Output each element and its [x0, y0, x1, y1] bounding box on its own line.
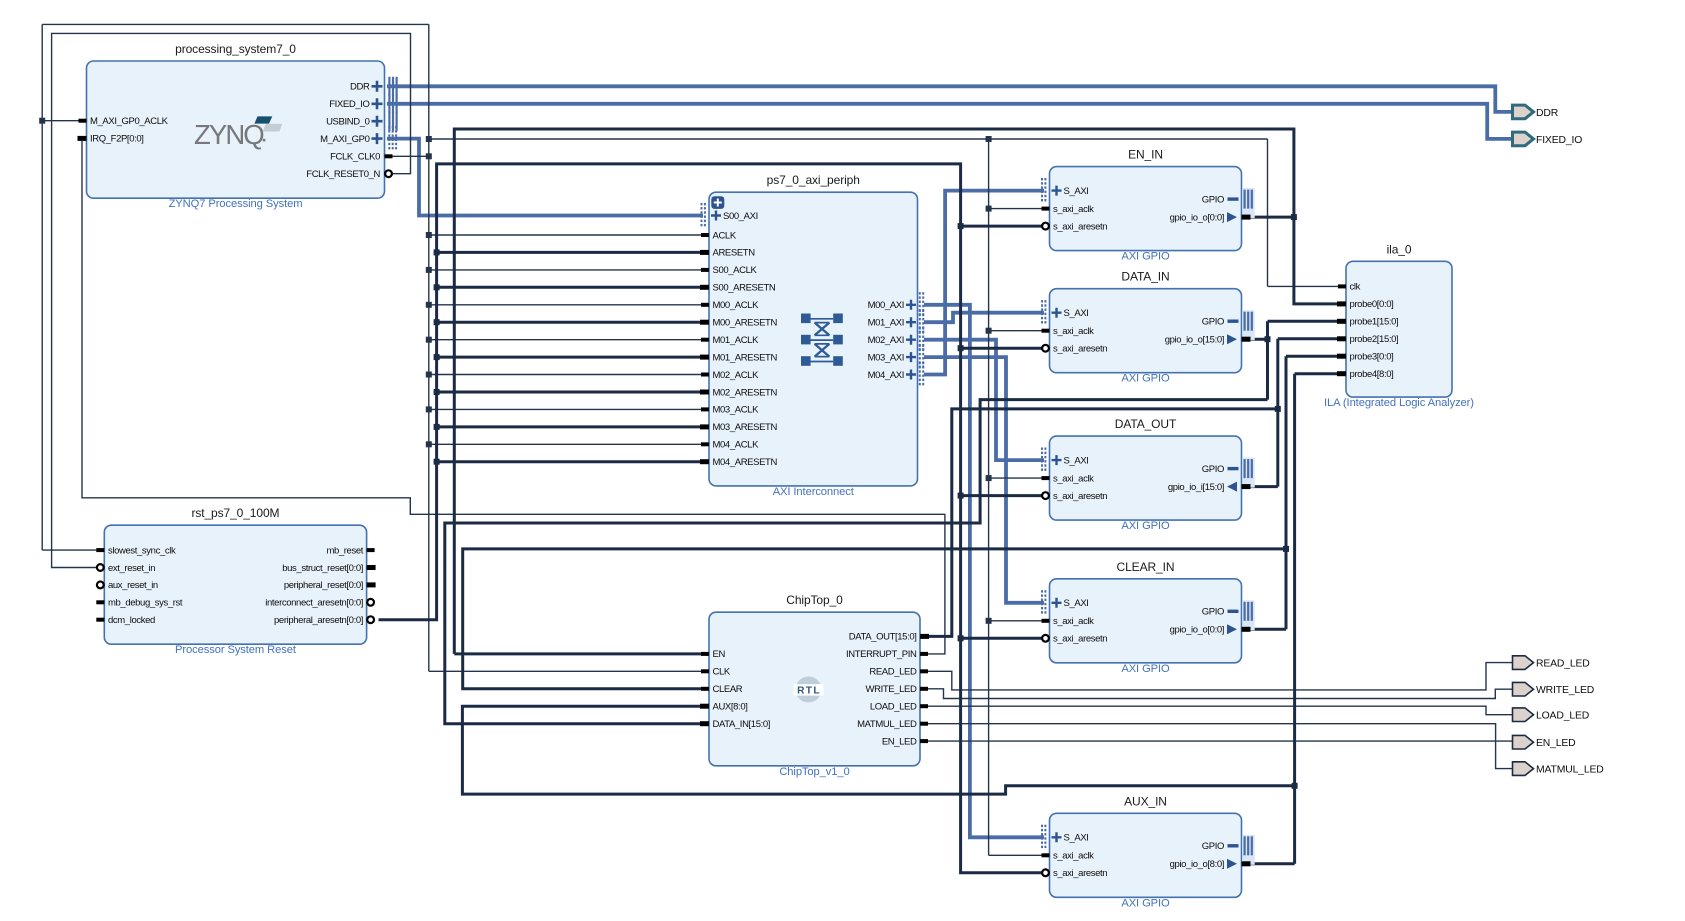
svg-text:ZYNQ7 Processing System: ZYNQ7 Processing System [169, 198, 303, 210]
svg-text:M_AXI_GP0_ACLK: M_AXI_GP0_ACLK [90, 116, 169, 127]
svg-text:M01_ARESETN: M01_ARESETN [713, 352, 778, 363]
svg-text:aux_reset_in: aux_reset_in [108, 580, 158, 591]
svg-text:DATA_IN: DATA_IN [1121, 270, 1169, 284]
svg-text:gpio_io_o[15:0]: gpio_io_o[15:0] [1165, 335, 1224, 346]
svg-text:S_AXI: S_AXI [1064, 833, 1089, 844]
svg-text:GPIO: GPIO [1202, 194, 1224, 205]
svg-text:M04_ARESETN: M04_ARESETN [713, 457, 778, 468]
svg-text:AXI GPIO: AXI GPIO [1121, 663, 1170, 675]
svg-text:ps7_0_axi_periph: ps7_0_axi_periph [767, 173, 860, 187]
svg-text:S_AXI: S_AXI [1064, 308, 1089, 319]
svg-text:s_axi_aclk: s_axi_aclk [1053, 616, 1094, 627]
svg-text:ACLK: ACLK [713, 230, 737, 241]
svg-text:M03_AXI: M03_AXI [868, 352, 904, 363]
svg-text:EN_LED: EN_LED [882, 736, 917, 747]
svg-text:s_axi_aclk: s_axi_aclk [1053, 326, 1094, 337]
svg-text:bus_struct_reset[0:0]: bus_struct_reset[0:0] [282, 563, 363, 574]
svg-text:probe1[15:0]: probe1[15:0] [1350, 317, 1399, 328]
svg-text:slowest_sync_clk: slowest_sync_clk [108, 545, 176, 556]
svg-text:gpio_io_i[15:0]: gpio_io_i[15:0] [1168, 482, 1224, 493]
svg-text:mb_reset: mb_reset [326, 545, 363, 556]
svg-text:CLK: CLK [713, 667, 731, 678]
svg-text:gpio_io_o[0:0]: gpio_io_o[0:0] [1170, 625, 1224, 636]
svg-text:M00_AXI: M00_AXI [868, 300, 904, 311]
svg-text:DATA_OUT: DATA_OUT [1115, 417, 1177, 431]
svg-text:M00_ARESETN: M00_ARESETN [713, 318, 778, 329]
svg-text:mb_debug_sys_rst: mb_debug_sys_rst [108, 598, 183, 609]
svg-text:MATMUL_LED: MATMUL_LED [857, 719, 917, 730]
svg-text:s_axi_aresetn: s_axi_aresetn [1053, 868, 1107, 879]
svg-text:peripheral_aresetn[0:0]: peripheral_aresetn[0:0] [274, 615, 363, 626]
svg-text:MATMUL_LED: MATMUL_LED [1536, 765, 1604, 776]
svg-text:S_AXI: S_AXI [1064, 186, 1089, 197]
svg-text:clk: clk [1350, 282, 1361, 293]
svg-text:s_axi_aclk: s_axi_aclk [1053, 473, 1094, 484]
svg-text:READ_LED: READ_LED [1536, 659, 1590, 670]
svg-text:s_axi_aresetn: s_axi_aresetn [1053, 344, 1107, 355]
svg-text:M01_ACLK: M01_ACLK [713, 335, 760, 346]
svg-text:probe0[0:0]: probe0[0:0] [1350, 299, 1394, 310]
svg-text:M04_AXI: M04_AXI [868, 370, 904, 381]
svg-text:M02_AXI: M02_AXI [868, 335, 904, 346]
svg-text:S00_AXI: S00_AXI [723, 211, 758, 222]
svg-text:ZYNQ: ZYNQ [194, 119, 264, 150]
svg-text:ila_0: ila_0 [1387, 242, 1412, 256]
svg-text:processing_system7_0: processing_system7_0 [175, 42, 296, 56]
svg-text:GPIO: GPIO [1202, 841, 1224, 852]
svg-text:EN_IN: EN_IN [1128, 148, 1163, 162]
svg-text:probe3[0:0]: probe3[0:0] [1350, 352, 1394, 363]
svg-text:AXI GPIO: AXI GPIO [1121, 373, 1170, 385]
svg-text:GPIO: GPIO [1202, 464, 1224, 475]
svg-text:AUX_IN: AUX_IN [1124, 794, 1167, 808]
svg-text:M01_AXI: M01_AXI [868, 318, 904, 329]
svg-text:USBIND_0: USBIND_0 [326, 117, 370, 128]
svg-text:S00_ACLK: S00_ACLK [713, 265, 758, 276]
svg-text:s_axi_aclk: s_axi_aclk [1053, 851, 1094, 862]
svg-text:peripheral_reset[0:0]: peripheral_reset[0:0] [284, 580, 363, 591]
svg-text:interconnect_aresetn[0:0]: interconnect_aresetn[0:0] [265, 598, 363, 609]
svg-text:ILA (Integrated Logic Analyzer: ILA (Integrated Logic Analyzer) [1324, 397, 1474, 409]
svg-text:INTERRUPT_PIN: INTERRUPT_PIN [846, 649, 917, 660]
svg-text:FIXED_IO: FIXED_IO [1536, 135, 1582, 146]
svg-text:GPIO: GPIO [1202, 317, 1224, 328]
svg-text:LOAD_LED: LOAD_LED [870, 702, 917, 713]
svg-text:DDR: DDR [1536, 108, 1559, 119]
svg-text:S_AXI: S_AXI [1064, 455, 1089, 466]
svg-text:dcm_locked: dcm_locked [108, 615, 155, 626]
svg-text:ChipTop_v1_0: ChipTop_v1_0 [779, 766, 849, 778]
svg-text:WRITE_LED: WRITE_LED [1536, 685, 1594, 696]
svg-text:AXI GPIO: AXI GPIO [1121, 520, 1170, 532]
svg-text:DATA_OUT[15:0]: DATA_OUT[15:0] [849, 632, 917, 643]
svg-text:DATA_IN[15:0]: DATA_IN[15:0] [713, 719, 771, 730]
svg-text:probe2[15:0]: probe2[15:0] [1350, 334, 1399, 345]
svg-text:probe4[8:0]: probe4[8:0] [1350, 369, 1394, 380]
svg-text:s_axi_aresetn: s_axi_aresetn [1053, 221, 1107, 232]
svg-text:ARESETN: ARESETN [713, 248, 756, 259]
svg-text:READ_LED: READ_LED [869, 667, 917, 678]
svg-text:M03_ACLK: M03_ACLK [713, 405, 760, 416]
svg-text:s_axi_aclk: s_axi_aclk [1053, 204, 1094, 215]
svg-text:M03_ARESETN: M03_ARESETN [713, 422, 778, 433]
svg-text:GPIO: GPIO [1202, 607, 1224, 618]
svg-text:M02_ACLK: M02_ACLK [713, 370, 760, 381]
svg-text:gpio_io_o[0:0]: gpio_io_o[0:0] [1170, 212, 1224, 223]
svg-text:S00_ARESETN: S00_ARESETN [713, 283, 776, 294]
svg-text:ext_reset_in: ext_reset_in [108, 563, 155, 574]
svg-text:rst_ps7_0_100M: rst_ps7_0_100M [191, 506, 279, 520]
svg-text:M_AXI_GP0: M_AXI_GP0 [320, 134, 369, 145]
svg-text:EN: EN [713, 649, 726, 660]
svg-text:FCLK_CLK0: FCLK_CLK0 [330, 152, 380, 163]
svg-text:LOAD_LED: LOAD_LED [1536, 711, 1589, 722]
svg-text:M00_ACLK: M00_ACLK [713, 300, 760, 311]
svg-text:AXI GPIO: AXI GPIO [1121, 251, 1170, 263]
svg-text:M04_ACLK: M04_ACLK [713, 440, 760, 451]
svg-text:FIXED_IO: FIXED_IO [329, 99, 369, 110]
svg-text:AXI GPIO: AXI GPIO [1121, 897, 1170, 909]
svg-text:FCLK_RESET0_N: FCLK_RESET0_N [306, 169, 380, 180]
svg-text:s_axi_aresetn: s_axi_aresetn [1053, 634, 1107, 645]
svg-text:AXI Interconnect: AXI Interconnect [773, 486, 855, 498]
svg-text:RTL: RTL [797, 685, 821, 696]
svg-text:CLEAR: CLEAR [713, 684, 743, 695]
svg-text:WRITE_LED: WRITE_LED [866, 684, 917, 695]
svg-text:ChipTop_0: ChipTop_0 [786, 593, 843, 607]
svg-text:CLEAR_IN: CLEAR_IN [1117, 560, 1175, 574]
svg-text:AUX[8:0]: AUX[8:0] [713, 702, 748, 713]
svg-text:Processor System Reset: Processor System Reset [175, 644, 297, 656]
svg-text:M02_ARESETN: M02_ARESETN [713, 387, 778, 398]
svg-text:DDR: DDR [350, 82, 370, 93]
svg-text:EN_LED: EN_LED [1536, 738, 1576, 749]
svg-text:s_axi_aresetn: s_axi_aresetn [1053, 491, 1107, 502]
svg-text:IRQ_F2P[0:0]: IRQ_F2P[0:0] [90, 134, 144, 145]
svg-text:gpio_io_o[8:0]: gpio_io_o[8:0] [1170, 859, 1224, 870]
svg-text:S_AXI: S_AXI [1064, 598, 1089, 609]
